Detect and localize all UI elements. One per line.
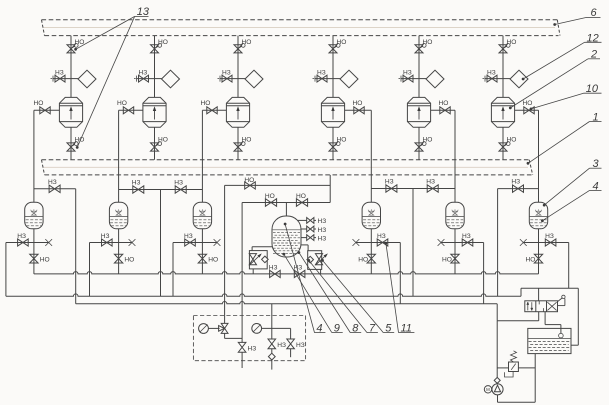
callout 13 (HO valves of branch 1) (74, 48, 77, 51)
vessel (receiver) branch 5 (407, 97, 430, 127)
valve HO bottom of branch 5 (415, 143, 423, 151)
relief valve spring (511, 351, 517, 362)
pressure gauge 1 (199, 324, 209, 334)
top header pipe 6 (dashed collector line) (42, 19, 558, 21)
side line down to accumulator, branch 3 (201, 110, 203, 202)
collecting rail C (76, 302, 498, 304)
gauge valve drain pipe (224, 333, 226, 338)
valve NZ (instrument drain 1) (238, 342, 246, 352)
relief valve body (509, 362, 519, 372)
check valve diamond (sample) (271, 349, 273, 353)
valve NZ on rail A (left of separator) (270, 270, 281, 277)
svg-text:НО: НО (523, 100, 533, 107)
pipe below accumulator branch 1 (33, 229, 35, 274)
pipe below accumulator branch 2 (118, 229, 120, 274)
instrument drain pipe 2 (290, 349, 292, 357)
check valve diamond (pump) (494, 377, 500, 383)
valve NZ with blind flange, branch 3 (220, 78, 238, 80)
right regulator outlet pipe (320, 269, 322, 274)
pump discharge bottom pipe (497, 395, 499, 402)
valve HO bottom of branch 2 (151, 143, 159, 151)
svg-text:М: М (486, 387, 490, 392)
vent valves NZ on separator (three) (298, 219, 307, 221)
side pipe with valve HO, branch 6 (515, 109, 539, 111)
branch 1 main riser pipe (lower) (70, 127, 72, 160)
branch 4 main riser pipe (lower) (332, 127, 334, 160)
side pipe with valve HO, branch 5 (431, 109, 455, 111)
membrane unit (diamond), branch 2 (155, 78, 162, 80)
svg-text:НО: НО (442, 256, 452, 263)
svg-text:НЗ: НЗ (487, 70, 496, 77)
drain pipe with valve NZ and capped end, branch 6 (523, 242, 568, 244)
pressure gauge 2 (252, 324, 262, 334)
svg-text:НЗ: НЗ (17, 233, 26, 240)
svg-text:НЗ: НЗ (296, 342, 305, 349)
svg-text:6: 6 (591, 7, 598, 19)
vessel (receiver) branch 4 (321, 97, 344, 127)
svg-text:9: 9 (334, 323, 340, 335)
valve HO top of branch 1 (67, 45, 75, 53)
flow arrow inside vessel branch 1 (70, 110, 72, 120)
gauge 2 connecting pipe (262, 327, 291, 329)
membrane unit (diamond), branch 6 (503, 78, 510, 80)
membrane unit (diamond), branch 4 (333, 78, 340, 80)
branch 3 main riser pipe (upper) (237, 36, 239, 98)
sample pipe from rail C (271, 304, 273, 339)
svg-text:НЗ: НЗ (426, 179, 435, 186)
svg-text:НО: НО (117, 100, 127, 107)
valve HO bottom of branch 3 (234, 143, 242, 151)
callout 12 (membrane unit) (522, 78, 525, 81)
svg-text:НО: НО (158, 39, 168, 46)
branch 1 bypass pipe with valve NZ (34, 188, 76, 190)
svg-text:3: 3 (593, 158, 600, 170)
svg-text:НЗ: НЗ (222, 70, 231, 77)
svg-text:НО: НО (242, 39, 252, 46)
instrument cabinet (dashed box) (193, 316, 305, 361)
drain drop pipe branch 2 (89, 243, 91, 297)
callout 8 (separator drain) (298, 251, 301, 254)
callout 3 (accumulator) (543, 204, 546, 207)
gas charge symbol inside accumulator branch 2 (116, 211, 121, 215)
valve HO bottom of branch 6 (499, 143, 507, 151)
valve HO below accumulator branch 6 (534, 254, 542, 263)
pipe below accumulator branch 5 (454, 229, 456, 274)
svg-text:НО: НО (423, 137, 433, 144)
svg-text:НО: НО (75, 39, 85, 46)
check valve diamond in left box (262, 256, 269, 263)
separator right tap to regulator (301, 244, 308, 246)
callout 10 (side valve) (530, 108, 533, 111)
svg-text:10: 10 (586, 83, 599, 95)
sensing drop pipe to instrument box (224, 185, 226, 323)
valve HO top of branch 2 (151, 45, 159, 53)
svg-text:НЗ: НЗ (318, 218, 327, 225)
drain pipe with valve NZ and capped end, branch 5 (441, 242, 484, 244)
flow arrow inside vessel branch 2 (154, 110, 156, 120)
side pipe with valve HO, branch 3 (202, 109, 226, 111)
side pipe with valve HO, branch 4 (345, 109, 372, 111)
vessel (receiver) branch 3 (226, 97, 249, 127)
relief valve drain hook (505, 372, 514, 378)
valve NZ (instrument drain 2) (287, 339, 295, 349)
svg-text:НЗ: НЗ (101, 233, 110, 240)
callout 9 (separator liquid) (282, 253, 285, 256)
branches 4-5 bypass drop pipe (412, 189, 414, 297)
svg-text:НО: НО (423, 39, 433, 46)
drain pipe with valve NZ and capped end, branch 3 (173, 242, 217, 244)
svg-text:НО: НО (296, 193, 306, 200)
collecting rail B (6, 294, 521, 296)
regulating valve in right box (315, 254, 322, 265)
gas charge symbol inside accumulator branch 5 (453, 211, 458, 215)
svg-text:НО: НО (358, 256, 368, 263)
separator feed pipe with two HO valves (242, 202, 330, 204)
collecting rail A (34, 272, 539, 274)
drain drop pipe branch 1 (5, 243, 7, 297)
svg-text:НЗ: НЗ (318, 235, 327, 242)
callout 11 (bypass valve NZ) (385, 242, 388, 245)
relief valve supply pipe (497, 367, 508, 369)
svg-text:НЗ: НЗ (269, 264, 278, 271)
svg-text:4: 4 (316, 323, 322, 335)
valve HO below accumulator branch 1 (30, 254, 38, 263)
svg-text:НЗ: НЗ (317, 70, 326, 77)
pipe valve port to pump line (538, 312, 540, 321)
drain pipe with valve NZ and capped end, branch 2 (90, 242, 133, 244)
branches 2-3 bypass drop pipe (160, 190, 162, 297)
membrane unit (diamond), branch 1 (71, 78, 78, 80)
svg-text:4: 4 (593, 180, 599, 192)
svg-text:НО: НО (242, 137, 252, 144)
svg-text:НЗ: НЗ (48, 179, 57, 186)
valve NZ on rail A (right of separator) (294, 270, 305, 277)
side line down to accumulator, branch 4 (370, 110, 372, 202)
drain pipe with valve NZ and capped end, branch 1 (6, 242, 49, 244)
svg-text:НО: НО (507, 137, 517, 144)
branch 2 main riser pipe (upper) (154, 36, 156, 98)
svg-text:НО: НО (158, 137, 168, 144)
svg-text:7: 7 (369, 323, 376, 335)
pipe below accumulator branch 4 (370, 229, 372, 274)
pipe below accumulator branch 6 (538, 229, 540, 274)
svg-text:НЗ: НЗ (248, 345, 257, 352)
svg-text:НЗ: НЗ (277, 342, 286, 349)
directional control valve (3-position) (525, 301, 558, 312)
branches 4-5 bypass pipe with two NZ valves (371, 188, 455, 190)
callout 2 (vessel) (509, 107, 512, 110)
svg-text:1: 1 (593, 112, 599, 124)
accumulator vessel branch 5 (446, 202, 464, 229)
lower header pipe 1 (dashed collector line) (42, 159, 530, 161)
accumulator vessel branch 4 (362, 202, 380, 229)
accumulator vessel branch 6 (529, 202, 547, 229)
check valve diamond in right box (307, 256, 314, 263)
side pipe with valve HO, branch 1 (34, 109, 60, 111)
valve HO bottom of branch 1 (67, 143, 75, 151)
valve HO below accumulator branch 5 (451, 254, 459, 263)
side line down to accumulator, branch 2 (118, 110, 120, 202)
instrument drain pipe 1 (241, 352, 243, 368)
callout 1 (lower header) (527, 162, 530, 165)
three-way gauge valve (221, 323, 228, 333)
flow arrow inside vessel branch 5 (418, 110, 420, 120)
directional valve right section crossed arrows (547, 302, 556, 310)
pipe below accumulator branch 3 (201, 229, 203, 274)
valve HO below accumulator branch 3 (198, 254, 206, 263)
callout 6 (top header) (553, 23, 556, 26)
manual lever of directional valve (558, 298, 563, 302)
valve NZ with blind flange, branch 2 (137, 78, 155, 80)
accumulator vessel branch 3 (193, 202, 211, 229)
pump (circle with triangle) (496, 382, 498, 384)
valve HO below accumulator branch 2 (114, 254, 122, 263)
svg-text:НЗ: НЗ (174, 180, 183, 187)
valve HO top of branch 4 (329, 45, 337, 53)
valve NZ (sample) (268, 339, 276, 349)
gas charge symbol inside accumulator branch 1 (32, 211, 37, 215)
svg-text:НЗ: НЗ (385, 179, 394, 186)
drain pipe with valve NZ and capped end, branch 4 (356, 242, 400, 244)
pressure regulator unit (right box) (308, 251, 322, 270)
oil tank (528, 328, 571, 353)
svg-text:НО: НО (507, 39, 517, 46)
branch 6 main riser pipe (lower) (502, 127, 504, 160)
svg-text:НЗ: НЗ (55, 70, 64, 77)
gas charge symbol inside accumulator branch 3 (200, 211, 205, 215)
svg-text:5: 5 (385, 323, 392, 335)
return pipe to tank (544, 312, 546, 325)
drain drop pipe branch 6 (568, 243, 570, 289)
membrane unit (diamond), branch 5 (419, 78, 426, 80)
vessel (receiver) branch 1 (59, 97, 82, 127)
branch 3 main riser pipe (lower) (237, 127, 239, 160)
svg-text:НЗ: НЗ (184, 233, 193, 240)
flow arrow inside vessel branch 3 (237, 110, 239, 120)
pressure regulator unit (left box) (249, 251, 267, 269)
left regulator outlet pipe (252, 269, 254, 274)
svg-text:НО: НО (208, 256, 218, 263)
side pipe with valve HO, branch 2 (119, 109, 143, 111)
valve HO bottom of branch 4 (329, 143, 337, 151)
tank suction pipe (534, 354, 536, 403)
svg-text:НО: НО (201, 100, 211, 107)
branch 5 main riser pipe (lower) (418, 127, 420, 160)
callout 5 (regulating valve) (321, 259, 324, 262)
svg-text:НЗ: НЗ (545, 233, 554, 240)
gauge 1 connecting pipe (208, 327, 219, 329)
pipe rail B to directional valve port (538, 288, 540, 301)
separator left tap to regulator (252, 246, 272, 248)
branches 2-3 bypass pipe with two NZ valves (119, 189, 203, 191)
svg-text:НЗ: НЗ (139, 70, 148, 77)
valve NZ with blind flange, branch 1 (53, 78, 71, 80)
pressure sensing pipe with valve HO (to gauge) (225, 184, 331, 186)
valve NZ with blind flange, branch 4 (315, 78, 333, 80)
branch 2 main riser pipe (lower) (154, 127, 156, 160)
valve HO below accumulator branch 4 (367, 254, 375, 263)
svg-text:НО: НО (337, 137, 347, 144)
valve HO top of branch 6 (499, 45, 507, 53)
svg-text:11: 11 (401, 323, 412, 335)
membrane unit (diamond), branch 3 (238, 78, 245, 80)
branch 1 bypass drop pipe (75, 189, 77, 304)
branch 5 main riser pipe (upper) (418, 36, 420, 98)
relief valve outlet pipe (518, 367, 535, 369)
callout 4 right (accumulator bottom) (541, 219, 544, 222)
svg-text:НО: НО (439, 100, 449, 107)
return diffuser in tank (559, 333, 564, 338)
valve NZ with blind flange, branch 5 (401, 78, 419, 80)
regulating valve in left box (249, 254, 256, 265)
pump suction riser (496, 321, 498, 378)
svg-text:НЗ: НЗ (132, 180, 141, 187)
vessel (receiver) branch 2 (143, 97, 166, 127)
svg-text:НЗ: НЗ (511, 179, 520, 186)
side line down to accumulator, branch 1 (33, 110, 35, 202)
valve HO top of branch 5 (415, 45, 423, 53)
separator inlet riser (285, 203, 287, 217)
drain drop pipe branch 4 (399, 243, 401, 304)
branch 1 main riser pipe (upper) (70, 36, 72, 98)
accumulator vessel branch 1 (25, 202, 43, 229)
branch 6 bypass pipe with valve NZ 11 (498, 188, 539, 190)
svg-text:НО: НО (40, 256, 50, 263)
side line down to accumulator, branch 5 (454, 110, 456, 202)
branch 6 bypass drop pipe (497, 189, 499, 297)
flow arrow inside vessel branch 4 (332, 110, 334, 120)
svg-text:НО: НО (124, 256, 134, 263)
side line down to accumulator, branch 6 (538, 110, 540, 202)
branch 6 main riser pipe (upper) (502, 36, 504, 98)
svg-text:8: 8 (352, 323, 359, 335)
drain drop pipe branch 5 (483, 243, 485, 304)
svg-text:2: 2 (590, 49, 597, 61)
drain pipe from separator feed line (241, 203, 243, 343)
directional valve middle section blocked ports (538, 301, 540, 305)
svg-text:НЗ: НЗ (377, 233, 386, 240)
svg-text:НЗ: НЗ (318, 227, 327, 234)
svg-text:НО: НО (526, 256, 536, 263)
flow arrow inside vessel branch 6 (502, 110, 504, 120)
valve HO top of branch 3 (234, 45, 242, 53)
electric motor M (484, 386, 491, 393)
branch 4 main riser pipe (upper) (332, 36, 334, 98)
gas charge symbol inside accumulator branch 4 (369, 211, 374, 215)
vessel (receiver) branch 6 (491, 97, 514, 127)
svg-text:НО: НО (353, 100, 363, 107)
valve NZ with blind flange, branch 6 (485, 78, 503, 80)
svg-text:НО: НО (265, 193, 275, 200)
svg-text:НО: НО (337, 39, 347, 46)
svg-text:НО: НО (34, 100, 44, 107)
directional valve left section arrows (527, 302, 529, 310)
callout 4 bottom (separator) (284, 223, 287, 226)
svg-text:НО: НО (244, 177, 254, 184)
svg-text:13: 13 (137, 6, 150, 18)
separator vessel 4 (272, 216, 301, 257)
svg-text:НЗ: НЗ (403, 70, 412, 77)
riser from lower header to separator lines (329, 175, 331, 203)
svg-text:12: 12 (587, 32, 599, 44)
svg-text:НЗ: НЗ (462, 233, 471, 240)
drain drop pipe branch 3 (172, 243, 174, 297)
gas charge symbol inside accumulator branch 6 (536, 211, 541, 215)
accumulator vessel branch 2 (109, 202, 127, 229)
callout 7 (check valve) (307, 259, 310, 262)
